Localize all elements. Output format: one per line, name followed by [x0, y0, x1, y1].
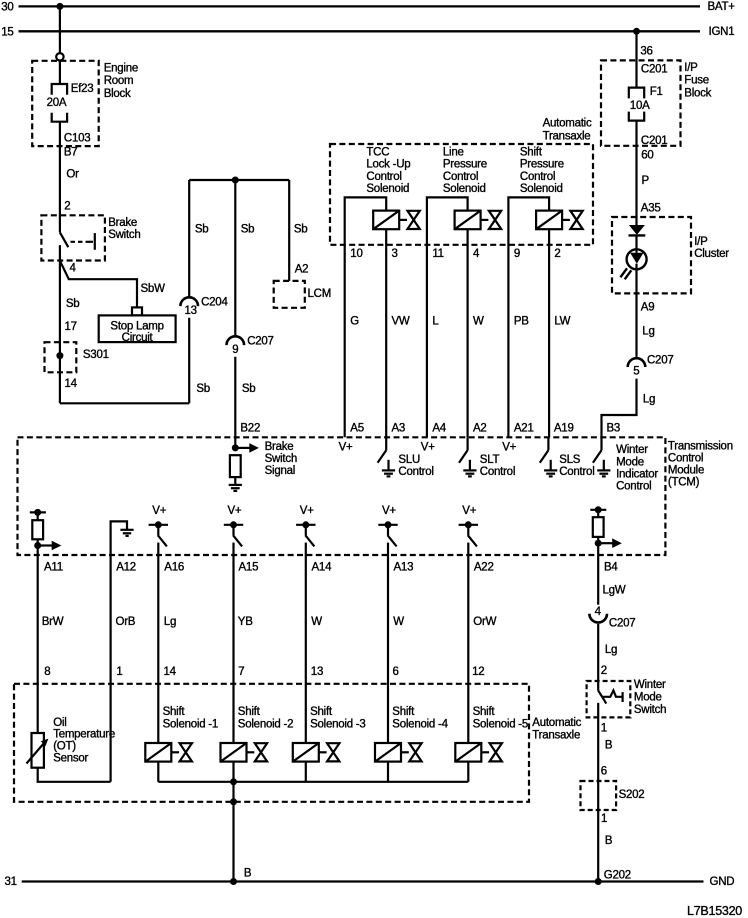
svg-text:V+: V+	[339, 442, 353, 454]
svg-text:C207: C207	[247, 336, 274, 348]
svg-text:A4: A4	[432, 422, 446, 434]
svg-text:B22: B22	[240, 422, 260, 434]
svg-text:Solenoid: Solenoid	[443, 183, 486, 195]
svg-text:Solenoid -1: Solenoid -1	[163, 718, 218, 730]
svg-text:Control: Control	[398, 466, 433, 478]
svg-text:Control: Control	[559, 466, 594, 478]
svg-text:Circuit: Circuit	[122, 332, 154, 344]
wire A14 W pin 13 to shift solenoid 3	[306, 555, 323, 743]
svg-text:A19: A19	[554, 422, 574, 434]
svg-text:60: 60	[641, 150, 653, 162]
splice S301	[45, 342, 109, 372]
svg-text:13: 13	[311, 666, 323, 678]
svg-text:BAT+: BAT+	[708, 1, 736, 13]
svg-text:30: 30	[1, 2, 13, 14]
svg-text:TCC: TCC	[366, 146, 389, 158]
svg-text:P: P	[642, 175, 650, 187]
svg-text:Solenoid: Solenoid	[366, 183, 409, 195]
svg-text:SLT: SLT	[480, 454, 500, 466]
LCM dashed box	[274, 281, 331, 308]
svg-text:Solenoid -3: Solenoid -3	[310, 718, 365, 730]
svg-text:9: 9	[232, 344, 238, 356]
svg-text:A13: A13	[394, 561, 414, 573]
svg-text:Automatic: Automatic	[532, 717, 581, 729]
solenoid common bus wire	[158, 781, 468, 783]
svg-text:V+: V+	[421, 442, 435, 454]
svg-text:Control: Control	[366, 171, 401, 183]
svg-text:13: 13	[185, 305, 197, 317]
svg-text:Mode: Mode	[616, 456, 644, 468]
svg-text:Control: Control	[520, 171, 555, 183]
Automatic Transaxle (top) dashed box	[330, 118, 593, 245]
svg-text:F1: F1	[650, 86, 663, 98]
svg-text:(TCM): (TCM)	[668, 476, 700, 488]
svg-text:C201: C201	[641, 135, 668, 147]
TCM pin A3 SLU control switch to ground	[378, 437, 434, 478]
svg-text:10: 10	[350, 248, 362, 260]
svg-text:12: 12	[472, 666, 484, 678]
svg-text:1: 1	[116, 666, 122, 678]
svg-text:3: 3	[392, 248, 398, 260]
svg-text:Lg: Lg	[642, 326, 654, 338]
svg-text:L: L	[432, 315, 439, 327]
svg-text:Brake: Brake	[108, 217, 137, 229]
svg-text:31: 31	[5, 876, 17, 888]
I/P Fuse Block dashed box	[601, 60, 712, 145]
svg-text:Solenoid -2: Solenoid -2	[238, 718, 293, 730]
svg-text:A11: A11	[44, 561, 63, 573]
svg-text:Shift: Shift	[310, 706, 333, 718]
svg-text:V+: V+	[382, 505, 396, 517]
TCM A16 V+ switch	[149, 505, 168, 555]
svg-text:Control: Control	[480, 466, 515, 478]
svg-text:C204: C204	[201, 297, 228, 309]
TCC Lock-Up Control Solenoid	[345, 146, 420, 437]
left Sb drop with connector C204 pin 13	[180, 180, 228, 403]
svg-text:Room: Room	[104, 75, 134, 87]
svg-text:W: W	[393, 616, 404, 628]
svg-text:S202: S202	[619, 789, 645, 801]
fuse F1 10A	[629, 86, 663, 121]
svg-text:Transaxle: Transaxle	[532, 729, 580, 741]
stop lamp connector nub	[132, 307, 142, 315]
junction on Sb header	[232, 177, 239, 184]
wire lamp to C207, labels A9 Lg	[637, 269, 655, 357]
svg-text:GND: GND	[710, 876, 735, 888]
svg-text:1: 1	[601, 723, 607, 735]
shift solenoid -4	[375, 706, 449, 782]
svg-text:Shift: Shift	[392, 706, 415, 718]
svg-text:4: 4	[595, 606, 602, 618]
wire A13 W pin 6 to shift solenoid 4	[388, 555, 404, 743]
svg-text:11: 11	[432, 248, 443, 260]
svg-text:36: 36	[640, 46, 652, 58]
svg-text:Sb: Sb	[241, 224, 255, 236]
connector C207 pin 4	[589, 606, 635, 630]
svg-text:V+: V+	[300, 505, 314, 517]
svg-text:Block: Block	[104, 88, 131, 100]
svg-text:C103: C103	[64, 132, 91, 144]
svg-text:Indicator: Indicator	[616, 469, 658, 481]
svg-text:Control: Control	[443, 171, 478, 183]
svg-text:W: W	[473, 315, 484, 327]
svg-text:14: 14	[164, 666, 177, 678]
svg-text:Solenoid -5: Solenoid -5	[473, 718, 528, 730]
svg-text:L7B15320: L7B15320	[687, 904, 742, 918]
junction solenoid bus to ground drop	[230, 778, 237, 785]
svg-text:Winter: Winter	[634, 679, 666, 691]
svg-text:10A: 10A	[630, 100, 650, 112]
svg-text:Shift: Shift	[520, 146, 543, 158]
wire A11 BrW pin 8 to OT sensor	[38, 555, 64, 733]
brake switch	[41, 215, 140, 260]
TCM B4 winter switch feed: bar, resistor, arrow	[590, 506, 622, 555]
svg-text:4: 4	[70, 262, 77, 274]
TCM A12 internal ground	[111, 521, 134, 555]
svg-text:W: W	[311, 616, 322, 628]
svg-text:C207: C207	[647, 355, 674, 367]
svg-text:6: 6	[393, 666, 399, 678]
svg-text:4: 4	[473, 248, 480, 260]
TCM B22 brake switch signal input: junction, arrow, resistor, ground	[229, 441, 297, 491]
svg-text:A2: A2	[295, 264, 309, 276]
svg-text:(OT): (OT)	[53, 741, 76, 753]
svg-text:Shift: Shift	[473, 706, 496, 718]
svg-text:Oil: Oil	[53, 717, 66, 729]
svg-text:Sensor: Sensor	[53, 752, 88, 764]
svg-text:Cluster: Cluster	[694, 248, 729, 260]
wire A16 Lg pin 14 to shift solenoid 1	[158, 555, 176, 743]
svg-text:LgW: LgW	[603, 585, 626, 597]
I/P Cluster dashed box	[612, 217, 729, 293]
svg-text:A35: A35	[641, 202, 661, 214]
junction G202 on line 31	[595, 878, 602, 885]
Automatic Transaxle (bottom) dashed box	[14, 684, 582, 802]
TCM pin A5 V+	[339, 442, 353, 454]
svg-text:A16: A16	[164, 561, 184, 573]
svg-text:Signal: Signal	[265, 465, 295, 477]
svg-text:SLU: SLU	[398, 454, 420, 466]
svg-text:PB: PB	[514, 315, 529, 327]
TCM A22 V+ switch	[459, 505, 478, 555]
TCM A15 V+ switch	[224, 505, 243, 555]
svg-text:OrB: OrB	[116, 616, 136, 628]
svg-text:SLS: SLS	[559, 454, 581, 466]
bottom horizontal Sb wire	[60, 402, 189, 404]
svg-text:Lg: Lg	[605, 644, 617, 656]
TCM pin A2 SLT control switch to ground	[459, 437, 515, 478]
svg-text:1: 1	[601, 813, 607, 825]
svg-text:A14: A14	[312, 561, 333, 573]
svg-text:Shift: Shift	[163, 706, 186, 718]
Transmission Control Module (TCM) dashed box	[18, 437, 733, 555]
wire circle to fuse Ef23	[59, 61, 61, 85]
svg-text:OrW: OrW	[473, 616, 496, 628]
shift solenoid -2	[221, 706, 294, 782]
wire fuse to brake switch, connector C103, wire B7 Or, pin 2	[60, 122, 91, 233]
svg-text:Shift: Shift	[238, 706, 261, 718]
svg-text:20A: 20A	[47, 97, 67, 109]
svg-text:Temperature: Temperature	[53, 729, 115, 741]
svg-text:Module: Module	[668, 465, 704, 477]
svg-text:V+: V+	[152, 505, 166, 517]
svg-text:9: 9	[514, 248, 520, 260]
TCM pin A4 V+	[421, 442, 435, 454]
svg-text:Sb: Sb	[195, 224, 209, 236]
svg-text:6: 6	[601, 766, 607, 778]
svg-text:A3: A3	[392, 422, 406, 434]
wire below brake switch blade, pin 4	[60, 245, 80, 403]
junction on line 15 at x=636.5	[633, 28, 640, 35]
svg-text:Stop Lamp: Stop Lamp	[110, 321, 163, 333]
svg-text:Or: Or	[66, 168, 79, 180]
junction solenoid drop on line 31	[230, 878, 237, 885]
svg-text:A5: A5	[350, 422, 364, 434]
svg-text:VW: VW	[392, 315, 410, 327]
svg-text:Automatic: Automatic	[543, 118, 592, 130]
svg-text:BrW: BrW	[42, 616, 64, 628]
wire pin 1 B pin 6 to S202	[598, 703, 631, 882]
svg-text:Transmission: Transmission	[668, 441, 733, 453]
open-circle connector on left feed	[56, 53, 63, 60]
svg-text:8: 8	[44, 666, 50, 678]
Shift Pressure Control Solenoid	[508, 146, 582, 437]
svg-text:A21: A21	[514, 422, 534, 434]
svg-text:Solenoid -4: Solenoid -4	[392, 718, 448, 730]
wire A22 OrW pin 12 to shift solenoid 5	[468, 555, 496, 743]
svg-text:G202: G202	[604, 870, 631, 882]
svg-text:Switch: Switch	[108, 229, 140, 241]
svg-text:IGN1: IGN1	[709, 26, 735, 38]
wire below F1: C201 pin 60, wire P, pin A35	[637, 121, 668, 225]
svg-text:Mode: Mode	[634, 692, 662, 704]
svg-text:Fuse: Fuse	[684, 75, 709, 87]
wire Lg jog to TCM pin B3	[602, 379, 656, 438]
svg-text:B: B	[244, 868, 252, 880]
winter mode switch	[587, 679, 667, 717]
ground drop wire B to bus 31	[230, 782, 252, 882]
svg-text:Line: Line	[443, 146, 464, 158]
svg-text:Sb: Sb	[66, 298, 80, 310]
diode (winter mode indicator feed)	[629, 225, 646, 235]
bus line 30 BAT+	[1, 1, 735, 13]
svg-text:I/P: I/P	[684, 62, 698, 74]
svg-text:5: 5	[633, 366, 639, 378]
svg-text:LW: LW	[554, 315, 570, 327]
svg-text:7: 7	[238, 666, 244, 678]
svg-text:Sb: Sb	[242, 383, 256, 395]
svg-text:Ef23: Ef23	[71, 83, 94, 95]
svg-text:15: 15	[1, 26, 13, 38]
junction on line 30 at x=60	[56, 3, 63, 10]
svg-text:LCM: LCM	[308, 288, 332, 300]
wire from line 30 down to connector circle	[59, 6, 61, 53]
svg-text:C207: C207	[609, 618, 636, 630]
Line Pressure Control Solenoid	[427, 146, 501, 437]
svg-text:14: 14	[65, 378, 78, 390]
svg-text:Switch: Switch	[634, 704, 666, 716]
TCM A14 V+ switch	[296, 505, 315, 555]
svg-text:Winter: Winter	[616, 444, 648, 456]
right Sb drop to LCM pin A2	[289, 180, 308, 281]
svg-text:Lg: Lg	[164, 616, 176, 628]
TCM bottom pin labels	[44, 561, 618, 573]
wire IGN1 to fuse F1, pin 36, connector C201	[637, 31, 668, 87]
svg-text:A9: A9	[641, 301, 655, 313]
splice S202	[581, 781, 645, 810]
svg-text:Pressure: Pressure	[520, 159, 564, 171]
svg-text:V+: V+	[228, 505, 242, 517]
svg-text:A15: A15	[239, 561, 259, 573]
svg-text:V+: V+	[462, 505, 476, 517]
svg-text:B: B	[605, 740, 613, 752]
svg-text:G: G	[350, 315, 359, 327]
svg-text:B3: B3	[607, 422, 621, 434]
svg-text:Control: Control	[668, 453, 703, 465]
wire A12 OrB pin 1	[111, 555, 136, 782]
top horizontal Sb wire	[189, 179, 289, 181]
svg-text:Lg: Lg	[643, 394, 655, 406]
svg-text:2: 2	[64, 200, 70, 212]
oil temperature (OT) sensor	[27, 717, 116, 782]
shift solenoid -5	[455, 706, 528, 782]
fuse Ef23 20A	[47, 83, 94, 122]
TCM A13 V+ switch	[378, 505, 397, 555]
TCM pin B3 winter mode indicator control switch to ground	[593, 437, 658, 492]
svg-text:B7: B7	[64, 146, 78, 158]
svg-text:2: 2	[554, 248, 560, 260]
TCM pin A21 V+	[502, 442, 516, 454]
svg-text:17: 17	[65, 321, 77, 333]
svg-text:Sb: Sb	[294, 224, 308, 236]
connector C207 pin 5	[628, 355, 674, 378]
svg-text:B: B	[605, 835, 613, 847]
svg-text:Solenoid: Solenoid	[520, 183, 563, 195]
middle Sb drop with connector C207 pin 9 down to B22	[227, 180, 274, 448]
bus line 31 GND	[5, 876, 735, 888]
drawing number L7B15320	[687, 904, 742, 918]
svg-text:Block: Block	[684, 87, 711, 99]
indicator lamp (winter mode)	[620, 235, 646, 279]
wire Lg pin 2 to winter mode switch	[598, 624, 617, 691]
TCM A11 sensor feed: bar, resistor, arrow	[30, 509, 62, 555]
svg-text:C201: C201	[641, 63, 668, 75]
svg-text:A12: A12	[116, 561, 136, 573]
svg-text:Transaxle: Transaxle	[543, 131, 591, 143]
svg-text:A2: A2	[473, 422, 487, 434]
svg-text:A22: A22	[474, 561, 494, 573]
svg-text:Control: Control	[616, 481, 651, 493]
Engine Room Block dashed box	[32, 61, 138, 146]
svg-text:Pressure: Pressure	[443, 159, 487, 171]
wire branch from pin 4 to stop lamp circuit, SbW	[60, 261, 165, 308]
shift solenoid -1	[145, 706, 218, 782]
svg-text:I/P: I/P	[694, 236, 708, 248]
svg-text:Brake: Brake	[265, 441, 294, 453]
svg-text:V+: V+	[502, 442, 516, 454]
svg-text:S301: S301	[83, 349, 109, 361]
wire B4 LgW to C207 pin 4	[598, 555, 626, 605]
svg-text:B4: B4	[604, 561, 618, 573]
TCM pin A19 SLS control switch to ground	[540, 437, 595, 478]
shift solenoid -3	[293, 706, 366, 782]
Stop Lamp Circuit box	[99, 315, 176, 344]
svg-text:2: 2	[601, 665, 607, 677]
svg-text:Engine: Engine	[104, 62, 138, 74]
svg-text:Lock -Up: Lock -Up	[366, 159, 410, 171]
wire A15 YB pin 7 to shift solenoid 2	[234, 555, 254, 743]
svg-text:Switch: Switch	[265, 453, 297, 465]
bus line 15 IGN1	[1, 26, 734, 38]
svg-text:SbW: SbW	[141, 283, 166, 295]
svg-text:YB: YB	[238, 616, 253, 628]
svg-text:Sb: Sb	[196, 383, 210, 395]
